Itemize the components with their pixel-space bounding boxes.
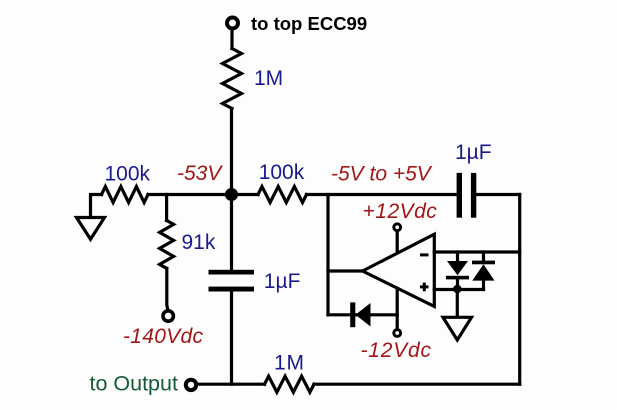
diode D1 cathode bar xyxy=(350,302,355,327)
terminal -140Vdc xyxy=(163,311,173,321)
resistor 100k left xyxy=(102,187,149,203)
resistor 91k xyxy=(160,220,174,268)
capacitor C2 plate left xyxy=(457,173,462,218)
wire 100k right to capacitor C2 xyxy=(307,193,456,196)
svg-text:1M: 1M xyxy=(274,352,305,375)
wire diode D3 stub top xyxy=(482,252,485,261)
svg-text:to top ECC99: to top ECC99 xyxy=(251,13,367,34)
svg-text:1µF: 1µF xyxy=(455,141,492,164)
op-amp plus sign horizontal xyxy=(420,285,429,288)
svg-text:-5V to +5V: -5V to +5V xyxy=(331,163,433,186)
resistor 100k right xyxy=(258,187,307,203)
resistor 1M top xyxy=(223,49,242,109)
wire R 1M bottom to right line xyxy=(314,383,520,386)
op-amp plus sign vertical xyxy=(423,283,426,292)
ground left xyxy=(77,218,105,240)
diode D1 triangle xyxy=(356,303,371,327)
diode D3 triangle xyxy=(472,264,494,280)
diode D2 cathode bar xyxy=(446,276,469,280)
terminal to Output xyxy=(186,380,196,390)
wire 100k left to node A xyxy=(148,193,258,196)
op-amp U1 xyxy=(363,234,435,306)
wire main horizontal left segment xyxy=(91,195,102,218)
svg-text:+12Vdc: +12Vdc xyxy=(363,200,438,223)
wire op-amp box left vertical xyxy=(326,195,329,315)
svg-text:100k: 100k xyxy=(259,161,305,184)
svg-text:1µF: 1µF xyxy=(264,270,301,293)
terminal -12Vdc xyxy=(394,330,401,337)
wire diode D3 stub bottom xyxy=(482,280,485,290)
wire diode D1 line xyxy=(328,313,397,316)
wire +12Vdc stub xyxy=(396,232,399,254)
diode D3 cathode bar xyxy=(472,261,495,265)
svg-text:100k: 100k xyxy=(105,163,151,186)
diode D2 triangle xyxy=(447,261,468,275)
wire R 1M to node A xyxy=(230,109,233,195)
capacitor C2 plate right xyxy=(471,173,476,218)
wire non-inverting input xyxy=(434,288,483,291)
ground right xyxy=(443,317,472,340)
wire node A to capacitor C1 xyxy=(230,195,233,270)
wire right vertical line xyxy=(518,195,521,385)
node A junction dot xyxy=(225,188,238,201)
wire diode D2 stub bottom xyxy=(456,279,459,290)
terminal top ECC99 xyxy=(227,18,238,29)
svg-text:-53V: -53V xyxy=(177,162,223,185)
wire diode D2 stub top xyxy=(456,252,459,262)
wire ground stub right xyxy=(456,289,459,316)
wire -12Vdc stub xyxy=(396,289,399,330)
wire op-amp output to feedback line xyxy=(328,269,363,272)
wire inverting input xyxy=(434,250,519,253)
wire output terminal to R 1M bottom xyxy=(198,383,265,386)
wire 91k to -140Vdc terminal xyxy=(167,268,168,311)
svg-text:to Output: to Output xyxy=(90,372,178,396)
capacitor C1 plate top xyxy=(209,270,255,275)
wire top terminal to R 1M xyxy=(230,31,233,49)
resistor 1M bottom xyxy=(265,376,315,392)
svg-text:-12Vdc: -12Vdc xyxy=(361,339,432,362)
op-amp minus sign xyxy=(420,253,429,256)
terminal +12Vdc xyxy=(394,224,401,231)
svg-text:-140Vdc: -140Vdc xyxy=(123,325,204,348)
capacitor C1 plate bottom xyxy=(209,287,255,292)
wire capacitor C2 right to right line xyxy=(476,193,519,196)
junction dot diodes xyxy=(453,285,462,294)
svg-text:1M: 1M xyxy=(254,67,283,90)
wire capacitor C1 to bottom wire xyxy=(230,292,233,385)
svg-text:91k: 91k xyxy=(182,231,216,254)
wire stub 91k xyxy=(165,195,168,221)
